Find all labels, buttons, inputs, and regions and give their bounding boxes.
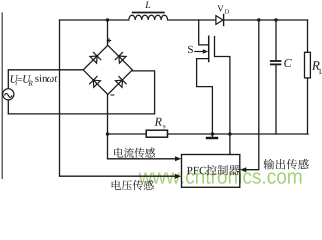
transistor S gate arrow (194, 51, 203, 53)
wire gate drive line (215, 37, 230, 155)
node rail-ground junction dot (211, 132, 214, 135)
wire RL bottom lead (307, 78, 309, 134)
label RL (312, 61, 320, 70)
label S (188, 46, 193, 53)
watermark www.cntronics.com (139, 169, 302, 184)
wire output sense (245, 20, 259, 170)
wire bridge bottom lead (107, 95, 109, 135)
diode VD (216, 16, 223, 25)
diode bridge D4 bottom-right edge (115, 80, 122, 87)
wire current sense (108, 134, 177, 159)
wire top rail left (60, 19, 129, 21)
arrow output sense (240, 167, 246, 172)
bridge minus label (111, 94, 115, 96)
label L (145, 1, 150, 8)
resistor RL (305, 52, 311, 78)
wire bottom rail right (168, 133, 309, 135)
wire top rail right (224, 19, 308, 21)
diode bridge D3 bottom-left edge (93, 80, 100, 87)
wire MOSFET source path (197, 59, 213, 134)
wire capacitor bottom lead (275, 65, 277, 134)
wire bottom rail left (108, 133, 147, 135)
wire bridge top lead (107, 20, 109, 45)
node rail-bridge junction dot (106, 132, 109, 135)
label VD (217, 5, 223, 11)
label current sense (114, 148, 123, 158)
bridge rectifier diamond (83, 45, 132, 94)
node sense-top junction dot (257, 18, 260, 21)
bridge plus label (107, 38, 111, 42)
PFC controller box (182, 155, 240, 188)
label PFC controller (187, 167, 192, 174)
wire capacitor top lead (275, 20, 277, 60)
capacitor C plates (270, 60, 282, 62)
label Ui = UR sin wt (11, 75, 19, 82)
wire MOSFET drain lead (199, 20, 209, 45)
AC source Ui (3, 89, 14, 100)
wire AC bottom return (8, 71, 154, 114)
diode bridge D1 top-left edge (90, 56, 97, 63)
wire RL top lead (307, 20, 309, 52)
arrow voltage sense (175, 174, 181, 179)
wire top rail mid (168, 19, 216, 21)
inductor L (129, 15, 168, 20)
node bridge-top junction dot (106, 18, 109, 21)
label C (284, 59, 291, 67)
node cap-top junction dot (274, 18, 277, 21)
wire AC top lead (8, 70, 83, 89)
ground (211, 134, 213, 137)
label output sense (263, 159, 274, 170)
diode bridge D2 top-right edge (119, 56, 126, 63)
label voltage sense (112, 180, 121, 190)
transistor S MOSFET bar (208, 36, 210, 63)
border artifact line (1, 13, 3, 178)
wire voltage-sense drop (60, 20, 177, 176)
resistor Rs (146, 130, 167, 137)
label Rs (155, 118, 162, 126)
node rail-drive junction dot (228, 132, 231, 135)
arrow current sense (175, 156, 181, 161)
